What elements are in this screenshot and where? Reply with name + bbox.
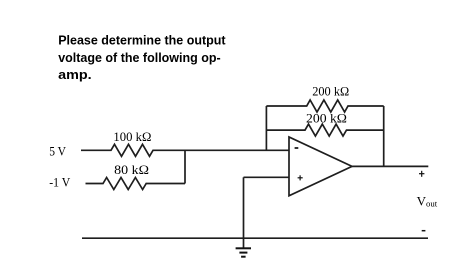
svg-text:5 V: 5 V: [49, 143, 66, 158]
svg-text:100 kΩ: 100 kΩ: [113, 129, 151, 144]
svg-text:200 kΩ: 200 kΩ: [306, 111, 347, 126]
svg-text:80 kΩ: 80 kΩ: [114, 162, 149, 177]
svg-text:voltage of the following op-: voltage of the following op-: [58, 51, 220, 65]
svg-text:Please determine the output: Please determine the output: [58, 34, 226, 48]
svg-text:200 kΩ: 200 kΩ: [312, 84, 349, 99]
svg-text:amp.: amp.: [58, 68, 91, 82]
svg-text:-1 V: -1 V: [49, 175, 71, 190]
